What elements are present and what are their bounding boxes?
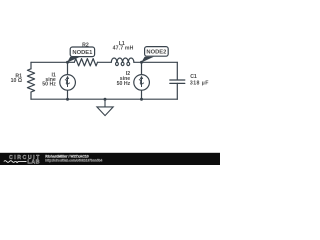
wire top-left segment — [31, 61, 74, 63]
capacitor C1 plate bottom — [170, 82, 185, 84]
current source I2 body — [134, 75, 150, 91]
inductor L1 loop 1 — [116, 62, 119, 65]
watermark bar — [0, 153, 220, 165]
ground — [97, 99, 113, 115]
svg-text:50 Hz: 50 Hz — [117, 81, 131, 87]
svg-text:50 Hz: 50 Hz — [42, 82, 56, 88]
svg-text:NODE1: NODE1 — [72, 50, 93, 56]
current source I2 arrow — [139, 78, 144, 87]
wire left vertical bottom lead — [30, 92, 32, 99]
junction I2 bottom — [140, 98, 143, 101]
inductor L1 loop 3 — [127, 62, 130, 65]
capacitor C1 plate top — [170, 79, 185, 81]
resistor R2 — [74, 59, 97, 66]
wire bottom rail — [31, 98, 177, 100]
wire I2 top lead — [141, 62, 143, 75]
svg-text:http://circuitlab.com/c6kkb187: http://circuitlab.com/c6kkb187bnn5b4 — [45, 158, 102, 162]
svg-text:318 µF: 318 µF — [190, 81, 209, 87]
junction ground — [104, 98, 107, 101]
svg-text:10 Ω: 10 Ω — [11, 78, 22, 84]
watermark logo sine — [4, 161, 27, 163]
wire top-middle segment — [98, 61, 112, 63]
current source I1 body — [60, 75, 76, 91]
resistor R1 — [27, 69, 34, 92]
svg-text:NODE2: NODE2 — [146, 50, 166, 56]
wire I1 bottom lead — [67, 90, 69, 99]
wire right vertical top lead — [176, 62, 178, 80]
junction node1 top — [66, 61, 69, 64]
svg-text:C1: C1 — [190, 74, 197, 80]
junction node2 top — [140, 61, 143, 64]
wire I1 top lead — [67, 62, 69, 75]
wire I2 bottom lead — [141, 90, 143, 99]
inductor L1 loop 2 — [121, 62, 124, 65]
svg-text:47.7 mH: 47.7 mH — [113, 46, 134, 52]
current source I1 arrow — [65, 78, 70, 87]
node flag NODE1 pointer — [67, 57, 80, 63]
wire top-right segment — [134, 61, 177, 63]
inductor L1 — [111, 58, 134, 62]
node flag NODE2 pointer — [141, 57, 154, 63]
wire right vertical bottom lead — [176, 83, 178, 99]
node flag NODE1 box — [70, 47, 94, 57]
junction I1 bottom — [66, 98, 69, 101]
wire left vertical top lead — [30, 62, 32, 69]
svg-text:LAB: LAB — [28, 160, 41, 165]
node flag NODE2 box — [145, 47, 169, 57]
